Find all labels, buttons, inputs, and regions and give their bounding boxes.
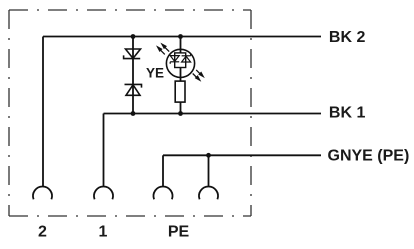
- svg-text:BK 2: BK 2: [329, 29, 366, 46]
- svg-text:YE: YE: [146, 65, 164, 80]
- svg-text:PE: PE: [168, 223, 190, 240]
- svg-text:BK 1: BK 1: [329, 105, 366, 122]
- svg-text:GNYE (PE): GNYE (PE): [328, 148, 410, 165]
- svg-text:1: 1: [99, 223, 108, 240]
- svg-text:2: 2: [38, 223, 47, 240]
